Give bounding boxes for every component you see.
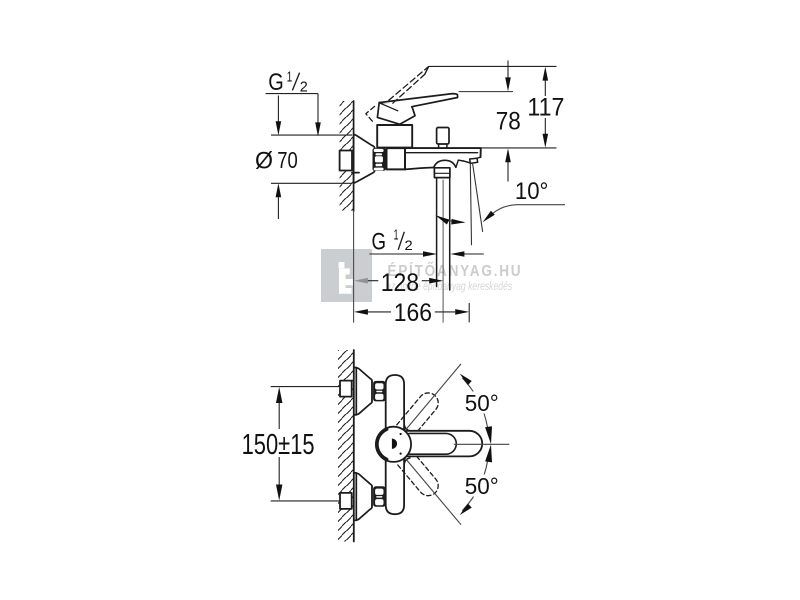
handle lever [379, 94, 457, 107]
svg-text:Ø: Ø [255, 147, 273, 174]
hub cartridge mark [392, 439, 397, 449]
dim 78 arrows [507, 61, 509, 182]
escutcheon cone [354, 134, 375, 183]
svg-text:78: 78 [496, 107, 521, 135]
dim lever-top reference line [459, 91, 514, 93]
dim spout reference line [481, 147, 557, 149]
lower hex nut [373, 486, 386, 507]
diverter knob [437, 128, 449, 145]
dim 10 deg leader [493, 205, 565, 214]
watermark logo square [321, 249, 372, 302]
svg-text:10°: 10° [515, 178, 549, 205]
dim horizontal centerline [454, 443, 509, 445]
upper hex nut [373, 381, 386, 402]
svg-text:128: 128 [381, 269, 419, 297]
wall hatching band [340, 101, 354, 211]
dashed lever down position [397, 451, 443, 500]
body connector [387, 148, 406, 169]
spout underside and aerator [405, 168, 434, 170]
svg-text:117: 117 [527, 94, 564, 122]
body capsule [386, 375, 404, 514]
svg-text:1: 1 [287, 69, 293, 86]
wall face line [353, 350, 355, 542]
dim 128 line and arrows [367, 280, 378, 282]
dim 117 vertical with arrows [544, 81, 546, 135]
dim G1/2 lower label [372, 226, 413, 255]
dim top reference line (raised lever) [429, 65, 557, 67]
svg-text:2: 2 [300, 78, 308, 95]
wall hatching band [338, 350, 354, 542]
lever top face [409, 433, 456, 454]
upper supply square [340, 381, 352, 397]
dim 50 upper arc [462, 378, 487, 428]
hub dots [400, 433, 402, 435]
hub circle [376, 427, 411, 462]
svg-text:2: 2 [405, 237, 413, 253]
dim G1/2 pipe dimension line [369, 253, 483, 255]
dim 50 lower text [463, 475, 502, 497]
lever fill mask [404, 431, 482, 457]
spout top [405, 148, 481, 157]
dim G1/2 top-left label [268, 69, 308, 97]
aerator ring [463, 158, 478, 163]
mixer body [377, 125, 412, 148]
watermark logo E glyph [339, 262, 353, 294]
pipe centerline [442, 180, 444, 322]
dim Ø70 vertical with arrows [277, 96, 279, 220]
upper escutcheon cone [354, 368, 372, 415]
dim 50 lower line [405, 458, 461, 525]
wall face line lower [353, 211, 355, 322]
lever outline [406, 431, 483, 457]
svg-text:1: 1 [394, 226, 399, 243]
wall face line upper [353, 101, 355, 211]
shower pipe collar [434, 168, 450, 178]
hex union nut [373, 148, 386, 171]
white mask for 117 text [528, 97, 564, 118]
svg-text:G: G [268, 69, 284, 96]
lower escutcheon cone [354, 473, 372, 520]
dim 150 extension lines [271, 387, 340, 501]
raised handle dashed outline [389, 67, 429, 100]
dim G1/2 leader line [266, 94, 318, 124]
dim 150 vertical with arrows [278, 401, 280, 488]
dim 50 upper line [405, 364, 461, 431]
svg-text:50°: 50° [465, 390, 499, 416]
dashed lever up position [397, 389, 443, 438]
dim 166 line and arrows [367, 311, 455, 313]
handle base [377, 103, 415, 125]
dim 10 deg arc [436, 216, 464, 223]
svg-text:150±15: 150±15 [242, 429, 315, 461]
lever fillets [404, 425, 410, 465]
shower pipe walls [437, 178, 450, 290]
dim 50 lower arc [462, 461, 487, 511]
svg-text:50°: 50° [465, 473, 499, 499]
lower supply square [340, 493, 352, 509]
water stream lines [470, 164, 471, 245]
supply pipe square [340, 151, 352, 171]
svg-text:166: 166 [394, 299, 432, 327]
svg-text:G: G [372, 229, 387, 256]
raised handle tip solid segment [425, 67, 429, 75]
dim 50 upper text [463, 392, 502, 414]
dim Ø70 extension lines [271, 135, 352, 183]
svg-text:70: 70 [277, 147, 298, 173]
hub thick left rim [377, 429, 387, 459]
